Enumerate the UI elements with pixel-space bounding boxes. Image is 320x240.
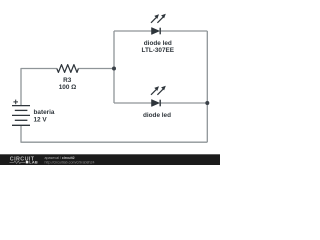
wire battery top to resistor <box>21 69 57 106</box>
led D2 arrows <box>151 89 163 95</box>
svg-text:R3: R3 <box>63 77 72 84</box>
footer credit text <box>45 156 95 164</box>
svg-text:100 Ω: 100 Ω <box>59 84 77 91</box>
node junction at resistor/LED branch <box>112 67 116 71</box>
svg-text:LTL-307EE: LTL-307EE <box>142 47 175 54</box>
footer bar <box>0 154 220 165</box>
wire top LED anode lead <box>114 30 152 32</box>
svg-text:bateria: bateria <box>34 109 55 116</box>
wire middle vertical rail <box>113 31 115 103</box>
svg-text:12 V: 12 V <box>34 117 48 124</box>
led D1 arrows <box>151 17 163 23</box>
diode led D2 (bottom) <box>151 86 166 107</box>
wire bottom return rail <box>21 125 207 142</box>
wire bottom LED cathode to right rail <box>161 102 208 104</box>
battery plus sign <box>13 100 18 105</box>
resistor R3 <box>57 65 79 73</box>
resistor R3 labels <box>59 77 77 91</box>
wire bottom LED anode lead <box>114 102 152 104</box>
battery labels <box>34 109 55 124</box>
wire resistor to junction node <box>78 68 114 70</box>
diode led D1 (top) <box>151 14 166 35</box>
node junction at right rail / bottom LED <box>205 101 209 105</box>
footer circuitlab logo <box>10 157 38 165</box>
wire right rail <box>206 31 208 142</box>
diode led D2 label <box>143 112 171 119</box>
svg-text:diode led: diode led <box>143 112 171 119</box>
diode led D1 labels <box>142 40 175 54</box>
svg-text:diode led: diode led <box>144 40 172 47</box>
wire top LED cathode to right rail <box>161 30 208 32</box>
battery V1 <box>12 106 30 126</box>
svg-text:LAB: LAB <box>29 160 38 165</box>
svg-text:http://circuitlab.com/c/9rab8h: http://circuitlab.com/c/9rab8h24 <box>45 160 95 164</box>
